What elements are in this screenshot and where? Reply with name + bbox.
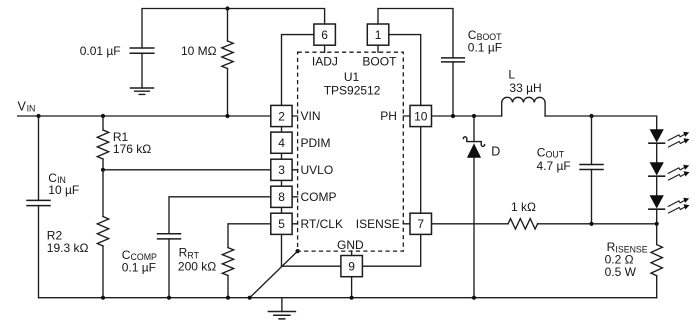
svg-text:4: 4 (278, 136, 285, 150)
svg-text:RT/CLK: RT/CLK (301, 217, 343, 231)
pin box 10 (410, 105, 432, 126)
wire: VOUT net inductor to LED string (545, 116, 657, 129)
wire: bottom ground rail (39, 297, 657, 299)
pin box 4 (271, 132, 292, 153)
svg-text:D: D (491, 145, 500, 159)
svg-text:7: 7 (417, 217, 424, 231)
svg-text:GND: GND (337, 238, 364, 252)
svg-text:IN: IN (27, 103, 36, 113)
svg-text:8: 8 (278, 190, 285, 204)
label CBOOT 0.1 uF (468, 28, 502, 54)
svg-text:33 µH: 33 µH (509, 81, 541, 95)
svg-text:2: 2 (278, 109, 285, 123)
svg-text:0.01 µF: 0.01 µF (80, 44, 121, 58)
wire: PH net pin 10 to inductor (432, 115, 502, 117)
svg-text:3: 3 (278, 163, 285, 177)
label R2 19.3 kOhm (47, 228, 89, 254)
svg-text:0.1 µF: 0.1 µF (468, 40, 502, 54)
resistor R1 176 k (97, 116, 108, 170)
capacitor CCOMP 0.1 uF (158, 234, 181, 298)
wire: ISENSE net 1k to LED string (538, 223, 657, 225)
wire: COMP net (pin 8 to CCOMP) (169, 197, 271, 234)
wire: ground stub center (281, 298, 283, 312)
svg-text:BOOT: BOOT (362, 55, 397, 69)
node: R1/R2 tap junction (101, 168, 105, 172)
svg-text:10 µF: 10 µF (48, 183, 79, 197)
svg-text:COMP: COMP (301, 190, 337, 204)
wire: LED2 to LED3 (656, 176, 658, 195)
svg-text:6: 6 (321, 28, 328, 42)
wire: ticks between left pin boxes (281, 127, 283, 214)
resistor RISENSE 0.2 Ohm (651, 224, 662, 298)
svg-text:L: L (508, 67, 515, 81)
ground (below 0.01 uF) (131, 88, 154, 94)
node: bottom rail / diagonal (248, 296, 252, 300)
LED D2 light arrows (668, 165, 689, 180)
wire: pin 9 to pin 7 bottom (362, 234, 420, 266)
svg-text:ISENSE: ISENSE (356, 217, 400, 231)
svg-text:TPS92512: TPS92512 (324, 84, 381, 98)
wire: BOOT pin 1 riser to CBOOT (378, 9, 453, 58)
pin box 9 (341, 256, 363, 277)
svg-text:5: 5 (278, 217, 285, 231)
ground (main, bottom center) (268, 312, 295, 319)
label RRT 200 kOhm (178, 246, 216, 274)
pin box 5 (271, 213, 292, 234)
wire: ISENSE net pin 7 to 1k (432, 223, 509, 225)
node: ISENSE / LED string junction (655, 222, 659, 226)
node: bottom rail / pin 9 lead (350, 296, 354, 300)
svg-text:U1: U1 (344, 70, 360, 84)
pin box 2 (271, 105, 292, 126)
node: top wire / 10M resistor junction (225, 6, 229, 10)
svg-text:C: C (537, 145, 546, 159)
label COUT 4.7 uF (537, 145, 571, 172)
svg-text:10 MΩ: 10 MΩ (181, 44, 217, 58)
node: ISENSE / COUT junction (589, 222, 593, 226)
diode D (schottky) (463, 116, 484, 298)
LED D2 (649, 162, 665, 176)
node: PH / CBOOT junction (451, 114, 455, 118)
capacitor CBOOT 0.1 uF (442, 58, 465, 116)
svg-text:19.3 kΩ: 19.3 kΩ (47, 241, 89, 255)
svg-text:1 kΩ: 1 kΩ (511, 200, 536, 214)
svg-text:UVLO: UVLO (301, 163, 334, 177)
wire: pin 10 bottom to pin 7 top (420, 127, 422, 214)
label VIN (18, 99, 36, 113)
svg-text:PH: PH (380, 109, 397, 123)
pin box 1 (367, 24, 389, 45)
svg-text:9: 9 (348, 259, 355, 273)
node: VIN / CIN junction (36, 114, 40, 118)
node: PH / diode junction (472, 114, 476, 118)
svg-text:V: V (18, 99, 27, 113)
label L 33 uH (508, 67, 541, 95)
node: VIN / R1 junction (101, 114, 105, 118)
label CIN 10 uF (48, 171, 79, 197)
svg-text:1: 1 (375, 28, 382, 42)
LED D3 (649, 195, 665, 209)
inductor L 33 uH (502, 97, 545, 116)
wire: BOOT pin 1 to pin 10 top (389, 35, 421, 106)
node: IC corner GND junction (296, 249, 300, 253)
svg-text:PDIM: PDIM (301, 136, 331, 150)
resistor 1 kOhm (508, 219, 538, 229)
wire: pin 5 bottom stub to GND node (281, 234, 283, 266)
wire: GND node to pin 9 (282, 265, 341, 267)
wire: LED3 to ISENSE rail (656, 209, 658, 224)
wire: pin 9 bottom lead (351, 277, 353, 298)
label RISENSE 0.2 Ohm 0.5 W (605, 240, 648, 279)
resistor R2 19.3 k (97, 170, 108, 298)
svg-text:0.5 W: 0.5 W (605, 265, 637, 279)
svg-text:4.7 µF: 4.7 µF (537, 159, 571, 173)
wire: RT/CLK net (pin 5 to RRT) (228, 224, 271, 248)
resistor RRT 200 k (222, 248, 233, 298)
wire: VIN input rail to pin 2 (18, 115, 271, 117)
svg-text:200 kΩ: 200 kΩ (178, 260, 216, 274)
pin box 7 (410, 213, 432, 234)
svg-text:R: R (179, 246, 188, 260)
node: VOUT / COUT junction (589, 114, 593, 118)
svg-text:IADJ: IADJ (312, 55, 338, 69)
node: bottom rail / CCOMP (167, 296, 171, 300)
LED D1 light arrows (668, 132, 689, 147)
capacitor COUT 4.7 uF (580, 116, 603, 224)
op-amp U1 dashed IC outline TPS92512 (298, 52, 404, 251)
svg-text:10: 10 (414, 109, 428, 123)
svg-text:176 kΩ: 176 kΩ (113, 142, 151, 156)
node: bottom rail / diode anode (472, 296, 476, 300)
label CCOMP 0.1 uF (122, 248, 157, 275)
wire: ticks pin boxes to dashed outline (292, 45, 410, 255)
svg-text:VIN: VIN (301, 109, 321, 123)
pin box 3 (271, 159, 292, 180)
pin box 6 (314, 24, 336, 45)
svg-text:0.1 µF: 0.1 µF (122, 261, 156, 275)
node: bottom rail / R2 (101, 296, 105, 300)
wire: GND diagonal to IC corner (250, 251, 298, 298)
wire: UVLO net (divider tap to pin 3) (103, 169, 271, 171)
label R1 176 kOhm (113, 130, 151, 156)
node: VIN / 10M junction (225, 114, 229, 118)
resistor 10 MOhm (222, 9, 233, 117)
wire: C1 bottom lead to ground (141, 53, 143, 88)
node: bottom rail / RRT (226, 296, 230, 300)
capacitor C1 0.01 uF plates (130, 48, 154, 53)
LED D1 (649, 129, 665, 143)
LED D3 light arrows (668, 198, 689, 213)
wire: IADJ pin 6 to pin 2 top (282, 35, 314, 106)
wire: LED1 to LED2 (656, 143, 658, 162)
pin box 8 (271, 186, 292, 207)
capacitor CIN 10 uF (27, 116, 50, 298)
wire: top net (C1 top, across to pin 6 riser) (142, 9, 325, 49)
